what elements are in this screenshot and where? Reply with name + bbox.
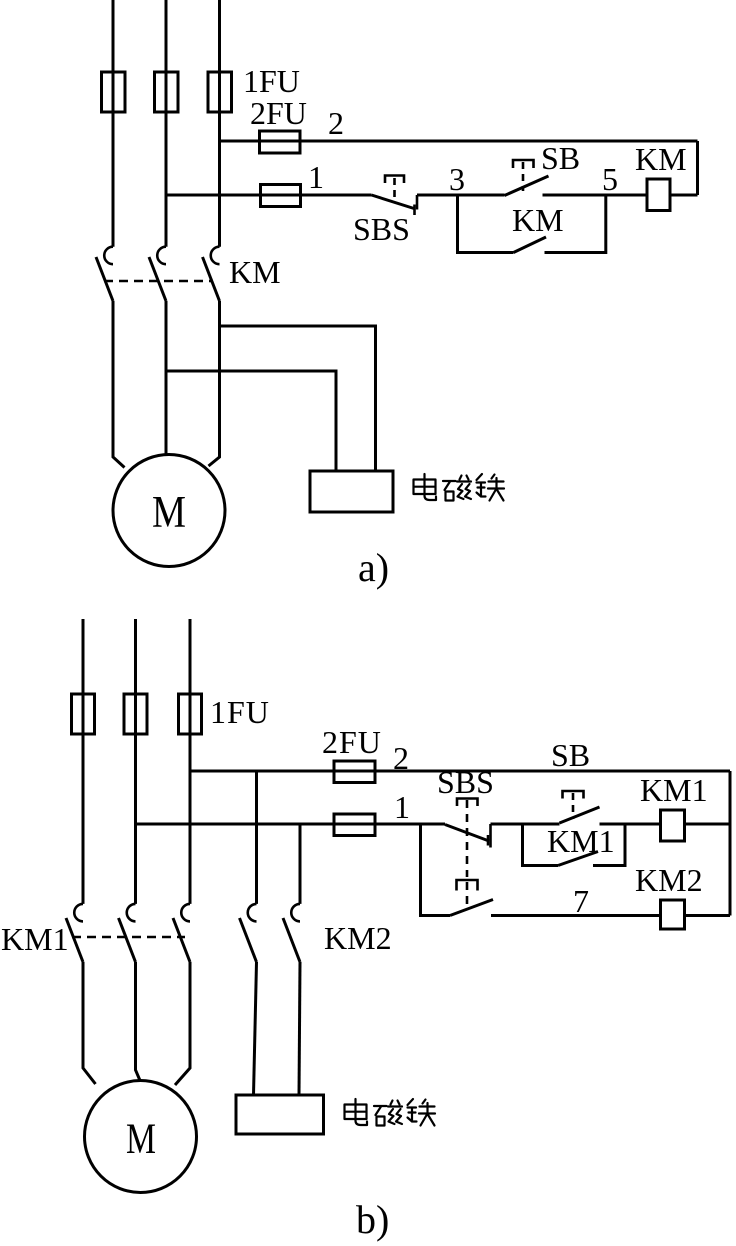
contactor KM1 main contact pole 1 (b) bbox=[66, 904, 83, 962]
svg-text:2: 2 bbox=[328, 105, 344, 141]
wire KM2 lead 1 lower (b) bbox=[254, 962, 257, 1095]
wire KM2 lead 1 upper from line 2 (b) bbox=[255, 771, 258, 904]
wire line 1 right with node 5 (a) bbox=[543, 194, 648, 197]
motor M circle (b) bbox=[85, 1081, 197, 1193]
contactor KM main contact pole 1 (a) bbox=[96, 247, 113, 301]
contactor KM1 main contact pole 2 (b) bbox=[119, 904, 136, 962]
wire right rail (b) bbox=[729, 771, 732, 916]
wire L1 to motor (b) bbox=[83, 962, 96, 1084]
svg-text:1FU: 1FU bbox=[210, 694, 270, 730]
contactor KM1 main contact pole 3 (b) bbox=[173, 904, 190, 962]
svg-text:SBS: SBS bbox=[353, 211, 410, 247]
svg-text:M: M bbox=[152, 487, 186, 537]
contact KM1 auxiliary blade (b) bbox=[558, 852, 598, 866]
contactor coil KM (a) bbox=[647, 179, 670, 211]
wire line 1 mid with node 3 (a) bbox=[417, 194, 505, 197]
contactor KM main contact pole 2 (a) bbox=[149, 247, 166, 301]
wire electromagnet lead from L2 (a) bbox=[166, 371, 336, 471]
contactor KM main contact pole 3 (a) bbox=[203, 247, 220, 301]
switch SBS normally-closed contact (b) bbox=[445, 824, 491, 848]
fuse 1FU pole 2 (a) bbox=[155, 72, 179, 112]
svg-text:KM2: KM2 bbox=[324, 920, 392, 956]
fuse on line 1 (a) bbox=[261, 185, 301, 207]
svg-text:2FU: 2FU bbox=[322, 724, 382, 760]
wire self-hold branch KM1 (b) bbox=[523, 823, 626, 866]
svg-text:1: 1 bbox=[308, 159, 324, 195]
svg-text:KM: KM bbox=[635, 141, 687, 177]
svg-text:1FU: 1FU bbox=[243, 63, 300, 99]
svg-text:KM1: KM1 bbox=[1, 921, 69, 957]
svg-text:KM1: KM1 bbox=[640, 772, 708, 808]
wire L1 to motor (a) bbox=[113, 301, 125, 468]
fuse 1FU pole 3 (a) bbox=[208, 72, 232, 112]
wire KM2 lead 2 upper from line 1 (b) bbox=[299, 824, 302, 904]
contactor KM2 contact pole 2 (b) bbox=[283, 904, 300, 962]
svg-text:3: 3 bbox=[449, 161, 465, 197]
electromagnet body (a) bbox=[310, 471, 393, 512]
wire control line 1 left (a) bbox=[166, 194, 372, 197]
svg-text:2FU: 2FU bbox=[250, 95, 307, 131]
wire phase L3 (b) bbox=[189, 619, 192, 904]
switch SBS normally-open blade (b) bbox=[450, 900, 493, 916]
svg-text:M: M bbox=[126, 1116, 156, 1163]
wire L3 to motor (b) bbox=[175, 962, 190, 1085]
contactor coil KM1 (b) bbox=[661, 810, 685, 841]
dashed linkage KM1 main contacts (b) bbox=[72, 936, 185, 939]
dashed linkage KM main contacts (a) bbox=[104, 280, 213, 283]
wire L3 to motor (a) bbox=[209, 301, 220, 466]
contact KM auxiliary blade (a) bbox=[514, 237, 547, 253]
svg-text:2: 2 bbox=[393, 740, 409, 776]
svg-text:KM1: KM1 bbox=[547, 823, 615, 859]
wire lower branch from line 1 (b) bbox=[421, 823, 451, 916]
wire coil KM1 to rail (b) bbox=[685, 823, 731, 826]
svg-text:SBS: SBS bbox=[437, 764, 494, 800]
svg-text:KM: KM bbox=[229, 254, 281, 290]
wire KM2 lead 2 lower (b) bbox=[299, 962, 300, 1095]
SBS actuator head (a) bbox=[385, 176, 404, 203]
SBS actuator head lower (b) bbox=[457, 880, 478, 905]
svg-text:7: 7 bbox=[573, 883, 589, 919]
fuse 1FU pole 1 (b) bbox=[72, 694, 95, 734]
label dian-ci-tie electromagnet (a) bbox=[414, 474, 505, 501]
wire self-hold branch (a) bbox=[458, 194, 606, 253]
wire control line 2 (a) bbox=[220, 140, 698, 143]
fuse 2FU (b) bbox=[334, 761, 375, 783]
wire phase L1 (b) bbox=[82, 619, 85, 904]
fuse 1FU pole 2 (b) bbox=[124, 694, 147, 734]
svg-text:b): b) bbox=[356, 1197, 389, 1242]
wire line 1 right (b) bbox=[600, 823, 661, 826]
svg-text:5: 5 bbox=[602, 161, 618, 197]
switch SBS normally-closed contact (a) bbox=[372, 195, 418, 215]
wire phase L2 (b) bbox=[134, 619, 137, 904]
fuse 1FU pole 1 (a) bbox=[102, 72, 126, 112]
svg-text:KM2: KM2 bbox=[635, 862, 703, 898]
contactor KM2 contact pole 1 (b) bbox=[240, 904, 257, 962]
pushbutton SB blade (a) bbox=[505, 176, 549, 196]
SB actuator head (a) bbox=[513, 160, 534, 191]
wire phase L3 (a) bbox=[218, 0, 221, 247]
electromagnet body (b) bbox=[236, 1095, 324, 1134]
SBS actuator head upper (b) bbox=[457, 799, 478, 878]
wire right rail (a) bbox=[696, 141, 699, 195]
wire coil to rail (a) bbox=[670, 194, 698, 197]
wire phase L2 (a) bbox=[165, 0, 168, 247]
wire lower rung to KM2 coil (b) bbox=[491, 914, 661, 917]
svg-text:KM: KM bbox=[512, 202, 564, 238]
fuse 2FU (a) bbox=[260, 131, 301, 153]
wire line 1 mid (b) bbox=[491, 823, 560, 826]
contactor coil KM2 (b) bbox=[661, 900, 685, 929]
SB actuator head (b) bbox=[563, 791, 584, 819]
pushbutton SB blade (b) bbox=[560, 807, 600, 823]
wire coil KM2 to rail (b) bbox=[685, 914, 731, 917]
fuse 1FU pole 3 (b) bbox=[179, 694, 202, 734]
svg-text:SB: SB bbox=[541, 140, 580, 176]
motor M circle (a) bbox=[113, 455, 225, 567]
svg-text:1: 1 bbox=[394, 789, 410, 825]
wire control line 2 (b) bbox=[190, 770, 730, 773]
wire electromagnet lead from L3 (a) bbox=[220, 326, 376, 471]
wire control line 1 (b) bbox=[136, 823, 446, 826]
fuse on line 1 (b) bbox=[334, 814, 375, 836]
svg-text:a): a) bbox=[358, 545, 389, 590]
wire phase L1 (a) bbox=[112, 0, 115, 247]
label dian-ci-tie electromagnet (b) bbox=[345, 1099, 436, 1126]
wire L2 to motor (a) bbox=[165, 301, 168, 456]
wire L2 to motor (b) bbox=[136, 962, 141, 1081]
svg-text:SB: SB bbox=[551, 737, 590, 773]
